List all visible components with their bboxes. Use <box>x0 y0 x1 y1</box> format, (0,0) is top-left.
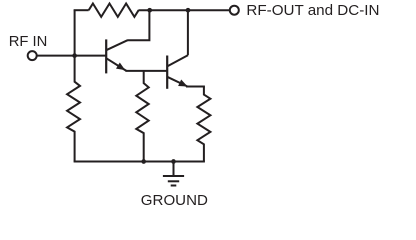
ground <box>163 162 184 186</box>
wire: top rail left segment <box>74 9 89 11</box>
svg-text:RF-OUT and DC-IN: RF-OUT and DC-IN <box>246 2 379 19</box>
node: dot at Q2 collector riser <box>186 8 191 13</box>
wire: input node up to top rail <box>74 10 76 55</box>
node: input junction dot <box>72 53 77 58</box>
wire: Q1 emitter to Q2 base <box>126 70 168 72</box>
resistor R1 (top feedback resistor) <box>89 4 139 17</box>
wire: Q2 emitter to R4 <box>186 86 205 88</box>
wire: Q1 collector riser to top rail <box>127 10 149 40</box>
svg-text:RF IN: RF IN <box>9 34 48 50</box>
wire: top rail right segment <box>138 9 229 11</box>
transistor Q1 <box>106 39 127 73</box>
node: dot at R1 / Q1 collector <box>147 8 152 13</box>
svg-text:GROUND: GROUND <box>141 192 208 209</box>
transistor Q2 <box>167 55 188 89</box>
resistor R4 (right, Q2 emitter) <box>197 87 210 162</box>
terminal: RF-OUT and DC-IN output <box>230 6 239 15</box>
wire: bottom ground rail <box>74 161 205 163</box>
node: dot at R3 bottom <box>141 159 146 164</box>
resistor R2 (input shunt, left) <box>67 56 80 162</box>
terminal: RF IN input <box>28 51 37 60</box>
wire: Q2 collector riser <box>187 10 189 55</box>
wire: RF IN terminal to Q1 base <box>37 55 106 57</box>
resistor R3 (middle, Q2 base shunt) <box>136 71 148 162</box>
node: dot at ground tap <box>171 159 176 164</box>
